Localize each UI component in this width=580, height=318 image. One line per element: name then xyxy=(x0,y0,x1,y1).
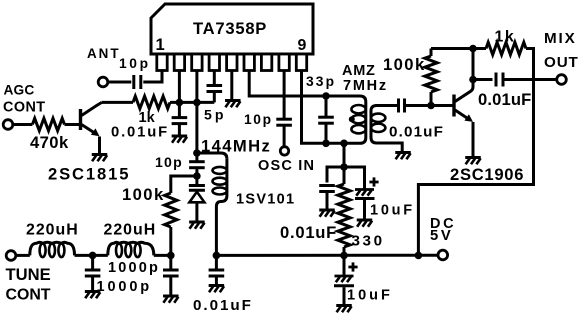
wire pin3 node down to tank xyxy=(195,102,198,153)
node pin3 junction xyxy=(193,99,201,107)
transistor Q2 2SC1906 base bar xyxy=(452,95,455,117)
label AMZ xyxy=(342,63,376,79)
IC U1 pin 1 box xyxy=(157,54,167,71)
wire C 10p to pin 1 xyxy=(143,71,162,83)
terminal DC 5V xyxy=(438,250,448,260)
ground (osc decouple) xyxy=(319,210,335,217)
svg-text:TUNE: TUNE xyxy=(6,265,51,284)
svg-text:144MHz: 144MHz xyxy=(201,137,271,156)
transformer T1 secondary loops xyxy=(371,114,385,132)
wire node to C 1000p (second) xyxy=(169,255,172,270)
label 220uH (first) xyxy=(26,222,79,239)
wire node to C 0.01uF (osc) xyxy=(327,167,344,183)
terminal AGC CONT xyxy=(3,120,13,130)
transformer T1 AMZ primary spine xyxy=(360,96,366,143)
IC U1 pin 7 box xyxy=(261,54,271,71)
ground (varactor) xyxy=(189,222,205,229)
wire pin 9 to transformer bottom xyxy=(302,71,361,144)
svg-text:2SC1906: 2SC1906 xyxy=(450,165,524,184)
ground (1000p first) xyxy=(85,292,101,299)
label 10p (varactor) xyxy=(155,154,183,170)
wire R 1k to 5p branch xyxy=(170,101,214,104)
wire tank top to L 144MHz xyxy=(197,153,227,159)
IC U1 pin 9 box xyxy=(296,54,306,71)
node varactor xyxy=(193,172,201,180)
label 1000p (second) xyxy=(97,279,153,295)
wire C 10p to varactor node xyxy=(195,168,198,176)
transistor Q1 emitter xyxy=(82,125,100,154)
wire C 1000p second to ground xyxy=(169,276,172,295)
label 330 xyxy=(352,233,385,250)
wire 5V rail xyxy=(216,254,438,257)
svg-text:0.01uF: 0.01uF xyxy=(280,223,337,242)
wire secondary top to C 0.01uF xyxy=(377,104,399,107)
capacitor C12 10uF (first) negative plate xyxy=(355,197,375,200)
wire node to C 0.01uF (pin2) xyxy=(178,102,181,117)
capacitor C12 10uF (first) plus xyxy=(369,177,378,186)
wire 1k to VCC drop xyxy=(418,49,533,256)
svg-text:0.01uF: 0.01uF xyxy=(389,124,444,141)
node rail VCC xyxy=(415,252,423,260)
label 1000p (first) xyxy=(108,260,160,276)
svg-text:2SC1815: 2SC1815 xyxy=(48,165,130,184)
label 1SV101 xyxy=(236,192,295,208)
node 33p bottom xyxy=(322,140,330,148)
label 1k (Q1) xyxy=(139,110,156,126)
label 0.01uF (mixer coupling) xyxy=(389,124,444,141)
label 10p (antenna) xyxy=(119,56,151,71)
inductor L1 144MHz loops xyxy=(213,167,227,195)
wire C 0.01uF tank to ground xyxy=(215,276,218,285)
node Q2 collector out xyxy=(469,76,477,84)
svg-text:1SV101: 1SV101 xyxy=(236,192,295,208)
svg-text:220uH: 220uH xyxy=(104,222,157,239)
transformer T1 secondary spine xyxy=(371,106,377,144)
ground (pin 5) xyxy=(225,101,241,108)
wire C 10p to OSC IN terminal xyxy=(283,125,286,146)
svg-text:100k: 100k xyxy=(122,185,165,204)
transformer T1 primary loops xyxy=(351,105,365,133)
svg-text:1: 1 xyxy=(156,35,165,54)
svg-text:220uH: 220uH xyxy=(26,222,79,239)
label 33p xyxy=(306,74,336,89)
wire L2 to L3 xyxy=(75,254,108,257)
label 144MHz xyxy=(201,137,271,156)
capacitor C13 10uF (second) negative plate xyxy=(334,284,354,287)
wire Q1 collector to R 1k xyxy=(102,101,134,104)
svg-text:9: 9 xyxy=(298,37,307,54)
label MIX xyxy=(544,30,577,47)
label 100k (tuning) xyxy=(122,185,165,204)
terminal OSC IN xyxy=(280,147,288,155)
wire pin 4 down xyxy=(213,71,216,86)
svg-text:470k: 470k xyxy=(30,133,69,152)
transistor Q2 collector xyxy=(455,49,473,102)
resistor R4 330 xyxy=(338,184,350,247)
label CONT (AGC) xyxy=(3,100,46,116)
wire node to varactor xyxy=(195,176,198,184)
node 33p top xyxy=(322,92,330,100)
svg-text:0.01uF: 0.01uF xyxy=(111,124,169,140)
wire ANT to C 10p xyxy=(108,81,132,84)
wire AGC terminal to R 470k xyxy=(13,123,33,126)
transistor Q1 collector xyxy=(82,102,102,115)
ground (Q2 emitter) xyxy=(465,158,481,165)
node osc feed xyxy=(340,140,348,148)
inductor L2 220uH (first) arch xyxy=(30,242,75,255)
label 10uF (second) xyxy=(347,288,393,304)
capacitor C3 5p xyxy=(207,86,223,92)
capacitor C4 10p (varactor coupling) xyxy=(189,162,205,168)
svg-text:OUT: OUT xyxy=(544,54,579,71)
label 100k (Q2) xyxy=(383,55,426,74)
pin number 1 xyxy=(156,35,165,54)
transistor Q2 emitter xyxy=(455,110,473,157)
svg-text:10uF: 10uF xyxy=(347,288,393,304)
wire C 0.01uF to Q2 base xyxy=(405,104,453,107)
inductor L1 144MHz spine xyxy=(216,159,227,256)
wire R 100k top xyxy=(430,49,433,57)
capacitor C9 33p xyxy=(318,117,334,123)
svg-text:CONT: CONT xyxy=(3,100,46,116)
label 0.01uF (pin2 bypass) xyxy=(111,124,169,140)
label 470k xyxy=(30,133,69,152)
svg-text:1000p: 1000p xyxy=(108,260,160,276)
capacitor C5 1000p (first) xyxy=(85,270,101,276)
capacitor C10 0.01uF (mixer coupling) xyxy=(399,99,405,113)
wire secondary bottom to ground xyxy=(377,143,403,152)
inductor L2 220uH (first) loops xyxy=(40,244,65,258)
svg-text:33p: 33p xyxy=(306,74,336,89)
label 220uH (second) xyxy=(104,222,157,239)
svg-text:1k: 1k xyxy=(495,29,516,46)
wire node to C 33p xyxy=(325,96,328,117)
wire pin 8 down xyxy=(283,71,286,120)
node pin2 junction xyxy=(176,99,184,107)
wire R 470k to Q1 base xyxy=(65,123,80,126)
terminal ANT xyxy=(98,77,108,87)
label 2SC1815 xyxy=(48,165,130,184)
wire node to C 1000p (first) xyxy=(91,255,94,270)
resistor R5 100k (Q2 bias) xyxy=(425,56,437,92)
node tank top xyxy=(193,149,201,157)
svg-text:CONT: CONT xyxy=(6,287,51,304)
wire Q2 base xyxy=(431,104,453,107)
wire R 330 top lead xyxy=(343,167,346,184)
wire C 33p bottom xyxy=(325,123,328,143)
wire L3 to node xyxy=(154,254,171,257)
svg-text:0.01uF: 0.01uF xyxy=(478,90,531,109)
svg-text:0.01uF: 0.01uF xyxy=(193,297,253,314)
wire C out to MIX OUT xyxy=(503,78,557,81)
ground (10uF second) xyxy=(336,306,352,313)
wire pin 2 down xyxy=(178,71,181,103)
wire node to C 10uF (first) xyxy=(344,167,365,189)
wire C 10uF first to ground xyxy=(363,200,366,219)
wire varactor to ground xyxy=(195,202,198,221)
label 1k (Q2 load) xyxy=(495,29,516,46)
varactor D1 1SV101 cathode bars xyxy=(189,186,205,191)
label OUT xyxy=(544,54,579,71)
IC U1 pin 2 box xyxy=(174,54,184,71)
wire R 330 bottom lead xyxy=(343,247,346,255)
label 5V xyxy=(430,228,453,244)
ground (10uF first) xyxy=(357,220,373,227)
resistor R2 1k (Q1 collector) xyxy=(133,96,170,108)
node Q2 base xyxy=(427,102,435,110)
svg-text:OSC IN: OSC IN xyxy=(258,158,315,174)
terminal TUNE CONT xyxy=(6,251,16,261)
ground (Q1 emitter) xyxy=(92,155,108,162)
wire tank top to C 10p varactor xyxy=(195,153,198,162)
svg-text:5p: 5p xyxy=(204,106,226,122)
node tank bottom xyxy=(213,252,221,260)
wire pin 6 to transformer top xyxy=(249,71,360,97)
label ANT xyxy=(87,46,121,61)
svg-text:7MHz: 7MHz xyxy=(343,78,388,94)
wire pin 3 down xyxy=(195,71,198,103)
wire TUNE terminal to L2 xyxy=(16,254,30,257)
svg-text:330: 330 xyxy=(352,233,385,250)
label TUNE xyxy=(6,265,51,284)
ground (1000p second) xyxy=(163,296,179,303)
pin number 9 xyxy=(298,37,307,54)
IC U1 pin 6 box xyxy=(244,54,254,71)
wire C 0.01uF to ground xyxy=(178,124,181,135)
capacitor C6 1000p (second) xyxy=(163,270,179,276)
IC U1 pin 5 box xyxy=(227,54,237,71)
capacitor C13 10uF (second) plus xyxy=(348,262,357,271)
node decoupling xyxy=(340,163,348,171)
transformer T1 primary tap dot xyxy=(349,116,355,122)
svg-text:AGC: AGC xyxy=(4,82,35,97)
capacitor C7 0.01uF (tank bottom) xyxy=(209,270,225,276)
inductor L3 220uH (second) arch xyxy=(108,242,154,255)
wire collector to C 0.01uF out xyxy=(473,78,493,81)
svg-text:AMZ: AMZ xyxy=(342,63,376,79)
svg-text:10p: 10p xyxy=(119,56,151,71)
wire varactor node to R 100k xyxy=(171,176,197,193)
svg-text:10uF: 10uF xyxy=(370,203,415,219)
wire node to C 10uF (second) xyxy=(343,255,346,276)
capacitor C2 0.01uF (pin 2 bypass) xyxy=(172,118,188,124)
svg-text:5V: 5V xyxy=(430,228,453,244)
wire pin 5 down xyxy=(230,71,233,100)
svg-text:TA7358P: TA7358P xyxy=(193,19,267,38)
label 5p xyxy=(204,106,226,122)
resistor R3 100k (tuning) xyxy=(165,193,177,227)
label 2SC1906 xyxy=(450,165,524,184)
wire C 10uF second to ground xyxy=(343,287,346,304)
inductor L3 220uH (second) loops xyxy=(116,244,141,258)
capacitor C11 0.01uF (osc decouple) xyxy=(319,186,335,192)
label CONT (TUNE) xyxy=(6,287,51,304)
ground (tank bottom cap) xyxy=(209,286,225,293)
wire node to C 0.01uF (tank) xyxy=(215,255,218,270)
wire 1k lead left xyxy=(473,47,486,50)
wire C 1000p first to ground xyxy=(91,276,94,291)
label AGC xyxy=(4,82,35,97)
wire collector top line xyxy=(431,47,473,50)
label 0.01uF (osc decouple) xyxy=(280,223,337,242)
IC U1 pin 3 box xyxy=(192,54,202,71)
wire C 5p to collector line xyxy=(213,92,216,103)
ground (pin2 bypass) xyxy=(172,136,188,143)
svg-text:10p: 10p xyxy=(155,154,183,170)
capacitor C1 10p (antenna coupling) xyxy=(134,75,141,89)
label 0.01uF (tank bottom) xyxy=(193,297,253,314)
node tune junction xyxy=(167,252,175,260)
svg-text:100k: 100k xyxy=(383,55,426,74)
resistor R1 470k xyxy=(32,118,64,130)
terminal MIX OUT xyxy=(557,75,567,85)
wire C to ground (osc decouple) xyxy=(326,192,329,210)
label 10p (osc in) xyxy=(244,112,273,127)
wire osc feed down xyxy=(343,143,346,167)
label 0.01uF (output) xyxy=(478,90,531,109)
transistor Q1 2SC1815 base bar xyxy=(79,109,82,130)
label OSC IN xyxy=(258,158,315,174)
label 10uF (first) xyxy=(370,203,415,219)
varactor D1 1SV101 triangle xyxy=(189,192,204,203)
node collector top xyxy=(469,45,477,53)
label 7MHz xyxy=(343,78,388,94)
resistor R6 1k (Q2 load) xyxy=(486,42,526,54)
capacitor C8 10p (osc in) xyxy=(276,119,292,125)
wire R 100k bottom xyxy=(430,92,433,106)
IC U1 pin 8 box xyxy=(279,54,289,71)
wire R 100k to tune line xyxy=(169,227,172,255)
IC U1 label TA7358P xyxy=(193,19,267,38)
label DC xyxy=(430,216,456,232)
IC U1 TA7358P body xyxy=(151,4,313,54)
node 1000p first xyxy=(89,252,97,260)
capacitor C12 10uF (first) positive plate xyxy=(355,190,374,196)
svg-text:MIX: MIX xyxy=(544,30,577,47)
IC U1 pin 4 box xyxy=(209,54,219,71)
capacitor C13 10uF (second) positive plate xyxy=(335,276,354,282)
ground (T1 secondary) xyxy=(395,153,411,160)
capacitor C14 0.01uF (output) xyxy=(496,73,503,87)
node rail 330 xyxy=(340,252,348,260)
svg-text:ANT: ANT xyxy=(87,46,121,61)
svg-text:10p: 10p xyxy=(244,112,273,127)
svg-text:1000p: 1000p xyxy=(97,279,153,295)
